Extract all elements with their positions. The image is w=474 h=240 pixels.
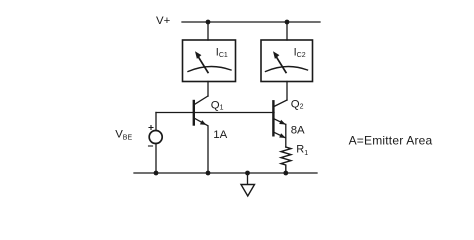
wire bottom ground rail bbox=[134, 172, 317, 174]
transistor Q1 bbox=[194, 96, 208, 126]
junction dot Q1 emitter at ground rail bbox=[206, 171, 211, 176]
wire IC1 meter to Q1 collector bbox=[207, 82, 209, 97]
junction dot V+ rail to IC2 meter bbox=[285, 20, 290, 25]
wire V+ top rail bbox=[182, 21, 320, 23]
ground symbol bbox=[241, 173, 255, 196]
svg-text:Q1: Q1 bbox=[211, 99, 224, 111]
ammeter U2 IC2 bbox=[261, 40, 313, 82]
transistor Q2 bbox=[273, 100, 287, 147]
wire VBE source to ground rail bbox=[155, 144, 157, 174]
wire V+ rail to IC1 meter bbox=[207, 22, 209, 40]
junction dot R1 at ground rail bbox=[283, 171, 288, 176]
svg-text:VBE: VBE bbox=[115, 128, 132, 141]
wire Q1 emitter to ground rail bbox=[207, 126, 209, 173]
svg-text:1A: 1A bbox=[213, 129, 227, 141]
junction dot V+ rail to IC1 meter bbox=[206, 20, 211, 25]
voltage source V1 VBE bbox=[149, 126, 163, 147]
svg-text:IC2: IC2 bbox=[294, 47, 306, 59]
svg-text:Q2: Q2 bbox=[291, 98, 304, 110]
wire V+ rail to IC2 meter bbox=[286, 22, 288, 40]
resistor R1 bbox=[281, 147, 291, 173]
junction dot VBE at ground rail bbox=[154, 171, 159, 176]
ammeter U1 IC1 bbox=[183, 40, 236, 82]
svg-text:A=Emitter Area: A=Emitter Area bbox=[349, 134, 433, 148]
wire IC2 meter to Q2 collector bbox=[286, 82, 288, 101]
svg-text:V+: V+ bbox=[156, 15, 171, 27]
svg-text:IC1: IC1 bbox=[216, 47, 228, 59]
junction dot ground symbol at rail bbox=[245, 171, 250, 176]
wire VBE source to base rail bbox=[155, 113, 157, 131]
wire common base rail bbox=[156, 112, 274, 114]
svg-text:R1: R1 bbox=[296, 143, 308, 157]
svg-text:8A: 8A bbox=[291, 125, 305, 137]
